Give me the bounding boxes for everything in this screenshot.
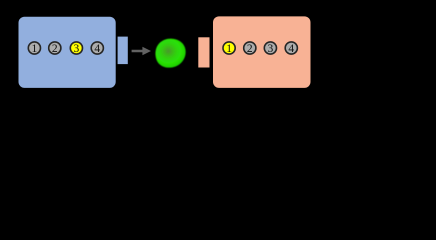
task circle 1 (sender, gray) [28, 42, 40, 55]
svg-text:2: 2 [247, 43, 253, 55]
task circle 4 (receiver, gray) [285, 42, 297, 55]
task circle 2 (receiver, gray) [244, 42, 256, 55]
task circle 2 (sender, gray) [49, 42, 61, 55]
svg-text:3: 3 [268, 43, 274, 55]
receive port tab on P1 [198, 37, 209, 67]
svg-text:1: 1 [226, 43, 232, 55]
task circle 4 (sender, gray) [91, 42, 103, 55]
send port tab on P0 [118, 37, 128, 65]
svg-text:2: 2 [52, 43, 58, 55]
process box P0 (sender, blue) [19, 17, 116, 88]
task circle 3 (receiver, gray) [264, 42, 276, 55]
task circle 3 (sender, yellow active) [70, 42, 82, 55]
svg-text:1: 1 [32, 43, 38, 55]
process box P1 (receiver, salmon) [213, 16, 311, 88]
svg-text:4: 4 [288, 43, 294, 55]
message blob (green) [155, 39, 185, 68]
arrow (message direction) [132, 47, 151, 55]
svg-text:4: 4 [94, 43, 100, 55]
svg-text:3: 3 [74, 43, 80, 55]
task circle 1 (receiver, yellow active) [223, 42, 235, 55]
